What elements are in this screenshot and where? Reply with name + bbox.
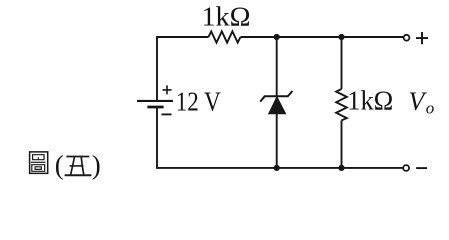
junction node (top of load branch) [338, 34, 344, 40]
wire left vertical upper (to battery + plate) [156, 36, 158, 100]
wire bottom rail [157, 167, 403, 169]
wire left vertical lower (battery to bottom rail) [156, 108, 158, 169]
svg-text:12 V: 12 V [176, 86, 221, 116]
zener diode D1 triangle (anode, apex up) [269, 97, 286, 114]
resistor R1 1kohm (top, zigzag) [209, 31, 241, 42]
battery + polarity mark [163, 85, 172, 94]
wire right branch lower lead [341, 120, 343, 167]
svg-text:o: o [426, 99, 435, 118]
battery - polarity mark [162, 113, 172, 115]
wire top horizontal to + terminal [241, 36, 404, 38]
wire zener bottom lead [276, 114, 278, 168]
label figure caption: glyph 圖 (drawn) [30, 152, 48, 174]
wire right branch upper lead [341, 37, 343, 89]
label figure caption: glyph 五 (drawn) [65, 157, 92, 176]
svg-text:1kΩ: 1kΩ [202, 2, 251, 32]
battery B1 short plate (-) [147, 106, 163, 109]
resistor R2 1kohm (right, vertical zigzag) [336, 89, 347, 120]
battery B1 long plate (+) [137, 100, 173, 102]
svg-text:(: ( [55, 150, 64, 180]
junction node (bottom of zener branch) [274, 165, 280, 171]
zener diode D1 cathode bar with bent ends [260, 91, 292, 102]
junction node (bottom of load branch) [338, 165, 344, 171]
output terminal + (open circle) [404, 35, 410, 41]
svg-text:1kΩ: 1kΩ [347, 86, 393, 116]
wire zener top lead [276, 37, 278, 96]
svg-text:V: V [409, 87, 428, 116]
junction node (top of zener branch) [274, 34, 280, 40]
output + sign [416, 32, 428, 44]
wire top-left horizontal segment [157, 36, 209, 38]
output terminal - (open circle) [403, 165, 409, 171]
output - sign [416, 167, 427, 169]
svg-text:): ) [92, 150, 101, 180]
